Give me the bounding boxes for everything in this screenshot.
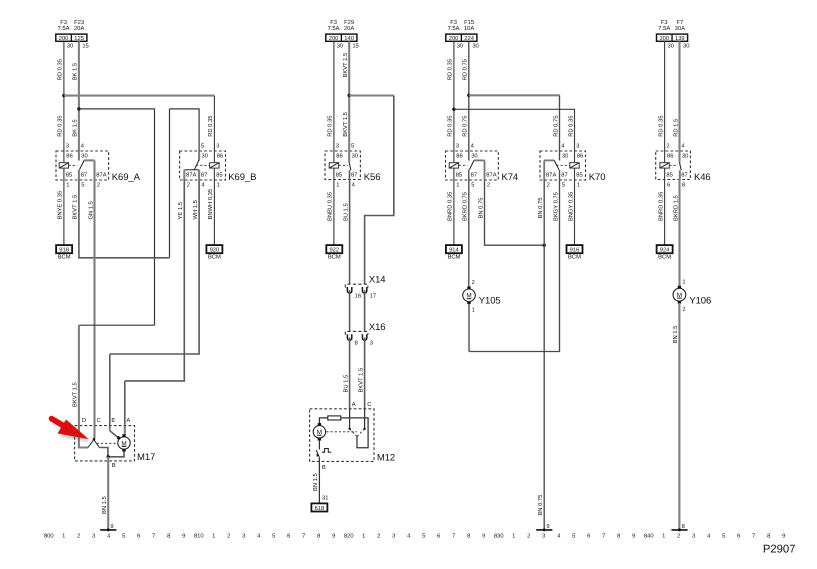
wire RD 0.35 fuse to K74 86 [453, 41, 455, 151]
wire BN 0.75 K70 87A to ground [543, 180, 545, 530]
svg-text:2: 2 [472, 279, 475, 286]
ground at 679.4 [671, 529, 687, 531]
svg-text:87: 87 [81, 171, 87, 178]
svg-text:9: 9 [632, 533, 635, 540]
svg-text:D: D [82, 418, 86, 424]
svg-text:X16: X16 [369, 322, 386, 333]
svg-text:WH 1.5: WH 1.5 [193, 200, 199, 219]
svg-text:8: 8 [682, 523, 685, 530]
M12 resistor [328, 416, 341, 420]
wire BKRD 0.75 K74 87 to Y105 [468, 180, 470, 287]
svg-text:1: 1 [62, 534, 65, 540]
svg-text:B: B [322, 465, 326, 471]
svg-text:200: 200 [59, 35, 69, 42]
svg-text:RD 0.75: RD 0.75 [462, 116, 469, 137]
svg-text:RD 0.75: RD 0.75 [462, 59, 469, 80]
red highlight arrow [52, 419, 91, 442]
svg-text:K56: K56 [364, 172, 381, 183]
wire BN 1.5 M17 B to ground [107, 457, 109, 530]
svg-text:M12: M12 [377, 452, 395, 463]
svg-text:BKRD 1.5: BKRD 1.5 [673, 195, 679, 221]
svg-text:3: 3 [456, 143, 459, 150]
svg-text:BU 1.5: BU 1.5 [343, 375, 349, 393]
svg-text:86: 86 [456, 153, 462, 160]
svg-text:BN 0.75: BN 0.75 [537, 198, 544, 219]
svg-text:6: 6 [287, 533, 290, 540]
relay K69_A switch [78, 151, 80, 161]
fuse block F3/F23 boxes 200|125 [56, 34, 87, 41]
svg-text:4: 4 [557, 534, 561, 540]
svg-text:X14: X14 [369, 275, 386, 286]
svg-text:8: 8 [167, 533, 170, 540]
relay K56 box [325, 151, 360, 180]
wire BU through X14-X16 [349, 290, 351, 331]
connector 922 [326, 245, 342, 253]
svg-text:RD 0.35: RD 0.35 [657, 116, 664, 137]
wire WH 1.5 K69_B 87 to M17 E [110, 180, 199, 354]
wire BK 1.5 fuse F23 to K69_A pin 30 [78, 41, 80, 151]
svg-text:RD 1.5: RD 1.5 [673, 119, 679, 137]
svg-text:9: 9 [332, 533, 335, 540]
svg-text:87A: 87A [486, 171, 496, 178]
svg-text:618: 618 [315, 505, 325, 512]
svg-text:800: 800 [44, 533, 54, 540]
svg-text:4: 4 [352, 182, 356, 188]
svg-text:B: B [112, 463, 116, 469]
wire BK branch elbow to M17 D [79, 324, 155, 326]
svg-text:9: 9 [482, 533, 485, 540]
relay K74 coil [449, 163, 458, 168]
wire rail RD 0.35 to K69_B pin 86 [64, 95, 215, 97]
svg-text:BKRD 0.75: BKRD 0.75 [462, 192, 469, 221]
svg-text:1: 1 [682, 280, 685, 286]
wire BKVT bracket to K69_B pin 30 [170, 109, 200, 151]
wire BKGY 0.75 K70 87 to Y105 pin1 [469, 180, 560, 352]
svg-text:8: 8 [617, 533, 620, 540]
svg-text:BK 1.5: BK 1.5 [73, 119, 79, 136]
svg-text:2: 2 [97, 181, 100, 188]
svg-text:30: 30 [667, 42, 673, 49]
svg-text:BKVT 1.5: BKVT 1.5 [73, 195, 79, 220]
svg-text:BN 0.75: BN 0.75 [477, 198, 484, 219]
relay K74 dashed link [459, 164, 468, 166]
svg-text:87: 87 [201, 171, 207, 178]
connector 916 [567, 245, 583, 253]
svg-text:Y106: Y106 [689, 296, 711, 307]
svg-text:4: 4 [407, 534, 411, 540]
wire RD 1.5 fuse to K46 30 [678, 41, 680, 151]
M17 switch feed D [79, 426, 88, 448]
svg-text:2: 2 [77, 533, 80, 540]
fuse block F3/F15 boxes 200|224 [446, 34, 477, 41]
svg-text:5: 5 [422, 534, 425, 540]
svg-text:10A: 10A [464, 25, 474, 32]
svg-text:C: C [97, 417, 101, 424]
M17 C feed into switch region [93, 426, 95, 439]
svg-text:6: 6 [737, 533, 740, 540]
fuse block F3/F7 boxes 200|139 [657, 34, 688, 41]
svg-text:1: 1 [217, 182, 220, 188]
svg-text:20A: 20A [344, 25, 354, 32]
svg-text:3: 3 [92, 533, 95, 540]
M12 thermal switch [318, 440, 320, 450]
svg-text:YE 1.5: YE 1.5 [178, 202, 184, 219]
svg-text:BN 1.5: BN 1.5 [313, 473, 319, 491]
svg-text:16: 16 [355, 292, 361, 299]
svg-text:BCM: BCM [208, 254, 221, 261]
relay K69_A box [56, 151, 109, 180]
svg-text:1: 1 [456, 182, 459, 188]
svg-text:4: 4 [202, 182, 206, 188]
M17 motor to node B [108, 451, 124, 457]
svg-text:87: 87 [681, 171, 687, 178]
svg-text:5: 5 [572, 534, 575, 540]
svg-text:BN 1.5: BN 1.5 [102, 496, 108, 514]
svg-text:Y105: Y105 [479, 295, 501, 306]
svg-text:5: 5 [722, 534, 725, 540]
svg-text:85: 85 [576, 171, 582, 178]
svg-text:15: 15 [352, 43, 358, 49]
svg-text:BNBU 0.35: BNBU 0.35 [327, 192, 334, 221]
M17 A feed to motor top [124, 426, 126, 436]
wire BKRD 1.5 K46 87 to Y106 [678, 180, 680, 287]
connector X16 [345, 331, 368, 334]
svg-text:K70: K70 [589, 172, 606, 183]
svg-text:6: 6 [587, 533, 590, 540]
wire BNRD 0.35 K74 85 to BCM 914 [453, 180, 455, 245]
relay K69_B box [180, 151, 226, 180]
relay K69_B coil [210, 163, 219, 168]
node junction BKVT rail [348, 94, 351, 97]
svg-text:6: 6 [437, 533, 440, 540]
svg-text:4: 4 [81, 144, 85, 150]
svg-text:8: 8 [317, 533, 320, 540]
connector 918 [56, 245, 72, 253]
svg-text:BKVT 1.5: BKVT 1.5 [358, 368, 364, 393]
relay K74 switch [468, 151, 470, 161]
M12 resistor to motor [319, 418, 327, 424]
svg-text:87: 87 [351, 171, 357, 178]
wire RD 0.75 fuse to K74 30 [468, 41, 470, 151]
svg-text:30: 30 [562, 153, 568, 160]
svg-text:2: 2 [547, 181, 550, 188]
svg-text:BKVT 1.5: BKVT 1.5 [343, 53, 349, 78]
svg-text:820: 820 [344, 533, 354, 540]
svg-text:830: 830 [494, 533, 504, 540]
svg-text:5: 5 [351, 144, 354, 150]
svg-text:1: 1 [336, 182, 339, 188]
svg-text:RD 0.35: RD 0.35 [207, 116, 214, 137]
svg-text:RD 0.35: RD 0.35 [327, 116, 334, 137]
svg-text:3: 3 [336, 143, 339, 150]
node junction BN 0.75 [543, 244, 546, 247]
svg-text:200: 200 [329, 35, 339, 42]
svg-text:BCM: BCM [447, 254, 460, 261]
relay K69_A dashed link [69, 164, 78, 166]
svg-text:4: 4 [257, 534, 261, 540]
svg-text:1: 1 [362, 534, 365, 540]
svg-text:7: 7 [752, 534, 755, 540]
relay K70 switch [559, 151, 561, 161]
svg-text:30: 30 [683, 42, 689, 49]
svg-text:5: 5 [81, 182, 84, 188]
svg-text:5: 5 [272, 534, 275, 540]
M17 dashed link switch-motor [97, 442, 118, 444]
relay K69_A coil [59, 163, 68, 168]
svg-text:RD 0.75: RD 0.75 [552, 116, 559, 137]
svg-text:2: 2 [666, 143, 669, 150]
node B junction M17 [107, 455, 110, 458]
svg-text:8: 8 [767, 533, 770, 540]
svg-text:RD 0.35: RD 0.35 [447, 116, 454, 137]
svg-text:2: 2 [227, 533, 230, 540]
svg-text:5: 5 [201, 144, 204, 150]
svg-text:85: 85 [666, 171, 672, 178]
svg-text:840: 840 [644, 533, 654, 540]
relay K46 box [656, 151, 691, 180]
svg-text:5: 5 [562, 182, 565, 188]
wire M17 E vertical [109, 354, 111, 426]
svg-text:7.5A: 7.5A [328, 26, 340, 32]
svg-text:86: 86 [667, 153, 673, 160]
svg-text:3: 3 [242, 533, 245, 540]
svg-text:2: 2 [527, 533, 530, 540]
svg-text:1: 1 [66, 182, 69, 188]
svg-text:3: 3 [392, 533, 395, 540]
svg-text:4: 4 [681, 144, 685, 150]
svg-text:810: 810 [194, 533, 204, 540]
svg-text:7.5A: 7.5A [448, 26, 460, 32]
svg-text:7: 7 [602, 534, 605, 540]
relay K46 switch [678, 151, 680, 163]
M12 dashed link motor-selector [326, 431, 357, 433]
M12 motor [318, 423, 321, 426]
svg-text:922: 922 [329, 247, 339, 254]
wire BN 0.75 K74 87A [485, 180, 545, 245]
svg-text:8: 8 [467, 533, 470, 540]
svg-text:30: 30 [682, 153, 688, 160]
svg-text:2: 2 [377, 533, 380, 540]
ground at 544.2 [536, 529, 552, 531]
M12 box [310, 409, 374, 462]
M17 switch to B path [99, 448, 108, 457]
wire Y105 pin1 down [468, 304, 470, 352]
svg-text:BN 0.75: BN 0.75 [537, 495, 544, 516]
svg-text:BNGY 0.35: BNGY 0.35 [567, 192, 574, 221]
wire BNGY 0.35 K70 85 to BCM 916 [574, 180, 576, 245]
node junction RD rail [62, 94, 65, 97]
svg-text:K69_B: K69_B [228, 172, 256, 183]
fuse block F3/F29 boxes 200|140 [326, 34, 357, 41]
wire BU X16 to M12 A [349, 337, 351, 408]
svg-text:17: 17 [370, 293, 376, 299]
svg-text:1: 1 [212, 534, 215, 540]
svg-text:87A: 87A [186, 171, 196, 178]
svg-text:3: 3 [542, 533, 545, 540]
wire BU 1.5 K56 87 down [349, 180, 351, 285]
wire BN 1.5 M12 B to connector 618 [318, 461, 320, 503]
svg-text:7: 7 [452, 534, 455, 540]
wire BNWH 0.35 K69_B 85 to BCM 920 [213, 180, 215, 245]
node junction BK branch [77, 107, 80, 110]
svg-text:A: A [126, 418, 130, 424]
svg-text:85: 85 [66, 171, 72, 178]
svg-text:BKGY 0.75: BKGY 0.75 [552, 192, 559, 221]
wire RD 0.35 rail to K70 86 [454, 109, 575, 151]
svg-text:85: 85 [456, 171, 462, 178]
svg-text:5: 5 [122, 534, 125, 540]
wire BNRD 0.35 K46 85 to BCM 924 [664, 180, 666, 246]
svg-text:2: 2 [487, 181, 490, 188]
svg-text:3: 3 [576, 143, 579, 150]
svg-text:200: 200 [659, 35, 669, 42]
wire BK branch to M17 D [79, 109, 155, 325]
M12 pin B wire [318, 457, 320, 461]
svg-text:3: 3 [216, 143, 219, 150]
node junction RD 0.35 rail [452, 108, 455, 111]
svg-text:30A: 30A [675, 25, 685, 32]
svg-text:BKVT 1.5: BKVT 1.5 [343, 112, 349, 137]
ground at 108.2 [100, 529, 116, 531]
svg-text:C: C [367, 401, 371, 408]
svg-text:6: 6 [137, 533, 140, 540]
relay K69_B switch [198, 151, 200, 161]
svg-text:139: 139 [675, 35, 685, 42]
wire GN 1.5 K69_A 87A to M17 C [93, 180, 95, 426]
svg-text:GN 1.5: GN 1.5 [87, 201, 94, 219]
wire M17 A vertical [124, 381, 126, 426]
M12 A/C stubs [349, 409, 351, 429]
svg-text:RD 0.35: RD 0.35 [57, 59, 64, 80]
svg-text:86: 86 [336, 153, 342, 160]
wire BNYE 0.35 K69_A pin85 to BCM 918 [63, 180, 65, 245]
svg-text:30: 30 [67, 42, 73, 49]
wire RD 0.35 fuse F3 to K69_A pin 86 [63, 41, 65, 151]
svg-text:7: 7 [302, 534, 305, 540]
svg-text:30: 30 [457, 42, 463, 49]
svg-text:916: 916 [570, 247, 580, 254]
svg-text:BCM: BCM [58, 254, 71, 261]
connector 914 [446, 245, 462, 253]
svg-text:2: 2 [682, 306, 685, 313]
svg-text:BN 1.5: BN 1.5 [673, 326, 679, 344]
relay K70 box [540, 151, 586, 180]
svg-text:M17: M17 [137, 452, 155, 463]
svg-text:140: 140 [344, 35, 354, 42]
svg-text:BKVT 1.5: BKVT 1.5 [73, 382, 79, 407]
wire RD 0.35 fuse to K56 86 [333, 41, 335, 151]
connector 924 [657, 245, 673, 253]
svg-text:4: 4 [561, 144, 565, 150]
connector 920 [206, 245, 222, 253]
M17 motor [122, 434, 125, 437]
M17 box [75, 426, 135, 461]
svg-text:1: 1 [472, 308, 475, 314]
svg-text:3: 3 [370, 340, 373, 347]
svg-text:K46: K46 [694, 172, 711, 183]
wire YE 1.5 K69_B 87A to M17 A [125, 180, 185, 381]
relay K69_B dashed link [196, 164, 210, 166]
wire BKVT 1.5 K69_A pin87 to K69_B pin30 [79, 180, 170, 258]
svg-text:BNYE 0.35: BNYE 0.35 [57, 191, 64, 220]
svg-text:7.5A: 7.5A [658, 26, 670, 32]
svg-text:BK 1.5: BK 1.5 [73, 63, 79, 80]
svg-text:86: 86 [577, 153, 583, 160]
svg-text:3: 3 [66, 143, 69, 150]
svg-text:K74: K74 [502, 172, 519, 183]
svg-text:86: 86 [66, 153, 72, 160]
svg-text:4: 4 [707, 534, 711, 540]
svg-text:30: 30 [81, 153, 87, 160]
svg-text:920: 920 [210, 247, 220, 254]
svg-text:P2907: P2907 [763, 544, 796, 556]
relay K56 switch [348, 151, 350, 163]
svg-text:6: 6 [667, 181, 670, 188]
svg-text:BNRD 0.35: BNRD 0.35 [447, 192, 454, 221]
svg-text:87A: 87A [96, 171, 106, 178]
svg-text:31: 31 [322, 494, 328, 501]
connector X14 [345, 284, 368, 287]
svg-text:20A: 20A [74, 25, 84, 32]
svg-text:30: 30 [472, 42, 478, 49]
svg-text:1: 1 [662, 534, 665, 540]
wire RD 0.75 rail to K70 30 [469, 94, 560, 96]
svg-text:1: 1 [512, 534, 515, 540]
svg-text:3: 3 [692, 533, 695, 540]
svg-text:85: 85 [216, 171, 222, 178]
svg-text:30: 30 [352, 153, 358, 160]
svg-text:224: 224 [464, 35, 474, 42]
svg-text:30: 30 [337, 42, 343, 49]
svg-text:9: 9 [546, 523, 549, 530]
svg-text:A: A [352, 402, 356, 408]
svg-text:87A: 87A [546, 171, 556, 178]
svg-text:86: 86 [217, 153, 223, 160]
svg-text:15: 15 [82, 43, 88, 49]
svg-text:924: 924 [660, 247, 670, 254]
svg-text:8: 8 [355, 340, 358, 347]
relay K74 box [446, 151, 499, 180]
svg-text:RD 0.35: RD 0.35 [57, 116, 64, 137]
svg-text:5: 5 [471, 182, 474, 188]
svg-text:2: 2 [677, 533, 680, 540]
wire BKVT X16 to M12 C [364, 337, 366, 408]
M12 dashed selector V [350, 429, 357, 437]
wire RD 0.35 fuse to K46 86 [664, 41, 666, 151]
svg-text:K69_A: K69_A [112, 172, 141, 183]
wire BKVT rail to X14 pin 17 [349, 94, 394, 96]
svg-text:4: 4 [471, 144, 475, 150]
svg-text:BCM: BCM [658, 254, 671, 261]
relay K46 coil [660, 163, 669, 168]
node junction RD 0.75 rail [467, 94, 470, 97]
svg-text:RD 0.35: RD 0.35 [567, 116, 574, 137]
connector 618 [311, 503, 327, 511]
svg-text:87: 87 [471, 171, 477, 178]
relay K46 dashed link [669, 164, 678, 166]
svg-text:85: 85 [336, 171, 342, 178]
svg-text:87: 87 [561, 171, 567, 178]
svg-text:7: 7 [152, 534, 155, 540]
wire BKVT 1.5 fuse to K56 30 [348, 41, 350, 151]
svg-text:8: 8 [682, 181, 685, 188]
M12 selector common path [341, 418, 368, 448]
relay K56 dashed link [339, 164, 348, 166]
svg-text:RD 0.35: RD 0.35 [447, 59, 454, 80]
svg-text:914: 914 [449, 247, 459, 254]
M17 E diagonal to motor [109, 426, 111, 431]
svg-text:2: 2 [187, 181, 190, 188]
